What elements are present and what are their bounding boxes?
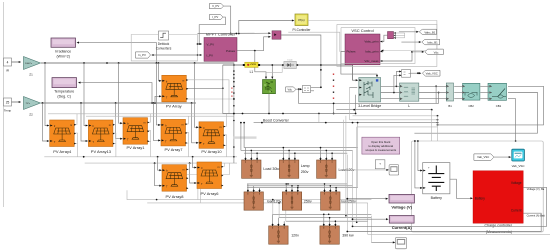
svg-text:Temp: Temp	[4, 109, 12, 113]
wire battery plus	[417, 140, 423, 171]
svg-text:Pulses: Pulses	[347, 50, 357, 54]
wire deblock loop	[131, 35, 198, 61]
svg-text:(Deg. C): (Deg. C)	[57, 95, 71, 99]
wire load row A drops	[246, 147, 333, 157]
wire PI input	[239, 19, 295, 33]
svg-text:Battery: Battery	[475, 197, 486, 201]
svg-text:Vdc: Vdc	[287, 87, 292, 91]
wire to PV Array1 inputs	[116, 63, 123, 140]
svg-text:I_PV: I_PV	[212, 15, 218, 19]
PV array PV Array8	[162, 165, 188, 199]
svg-text:CB1: CB1	[496, 104, 502, 108]
wire to PV Array4 inputs	[43, 63, 50, 142]
goto tag Vab_VSC	[422, 70, 440, 76]
svg-text:25: 25	[6, 101, 10, 105]
wire	[12, 61, 22, 63]
svg-text:L: L	[408, 104, 410, 108]
svg-text:Current (A) Batt: Current (A) Batt	[527, 213, 545, 217]
svg-text:PI-Controller: PI-Controller	[293, 28, 312, 32]
wire to PV Array6 inputs	[190, 157, 197, 184]
wire	[344, 120, 389, 171]
breaker CB2	[463, 83, 480, 108]
measurement mux	[388, 32, 397, 39]
boost converter IGBT	[263, 80, 276, 94]
svg-text:Vdc_meas: Vdc_meas	[364, 59, 379, 63]
svg-text:Irradiance: Irradiance	[55, 50, 71, 54]
wire	[494, 156, 511, 158]
wire load bus row A	[240, 114, 359, 154]
three-level bridge	[358, 78, 381, 109]
gain Z2	[24, 97, 41, 117]
svg-text:V_PV: V_PV	[212, 4, 219, 8]
wire VSC wrap boxes	[337, 24, 437, 66]
wire phase wrap A	[437, 86, 544, 126]
wire phase wrap C	[508, 99, 516, 142]
scope small	[389, 165, 399, 175]
svg-text:V_PV: V_PV	[207, 42, 215, 46]
wire irradiance bus	[41, 62, 234, 64]
wire to PV Array7 inputs	[153, 63, 160, 141]
wire	[411, 72, 422, 74]
wire load row C drops	[273, 214, 337, 223]
svg-text:PI(s): PI(s)	[298, 18, 304, 22]
svg-text:Z1: Z1	[29, 73, 33, 77]
svg-text:Temperature: Temperature	[54, 90, 74, 94]
wire to PV Array10 inputs	[192, 63, 199, 144]
PV array PV Array10	[199, 122, 225, 154]
display Current(A)	[389, 216, 414, 231]
diode block	[284, 60, 296, 69]
wire row1 collector	[186, 87, 235, 100]
svg-text:250v: 250v	[304, 200, 312, 204]
goto tag Vdc	[425, 49, 444, 55]
wire mux feeds	[395, 33, 405, 38]
breaker CB1	[488, 83, 507, 108]
wire PI output	[308, 21, 437, 52]
wire gate drops	[255, 51, 282, 80]
svg-text:Iabc_prim: Iabc_prim	[365, 50, 379, 54]
PV array PV Array6	[197, 162, 223, 196]
load Lamp 250v	[279, 157, 309, 178]
svg-text:Load 30kw: Load 30kw	[263, 167, 281, 171]
display Temperature (Deg. C)	[52, 78, 77, 99]
wire to PV Array13 inputs	[81, 63, 88, 142]
svg-text:Vab_VSC: Vab_VSC	[426, 71, 438, 75]
svg-text:PV Array4: PV Array4	[53, 149, 72, 154]
inductor L1	[245, 62, 258, 74]
wire lower distribution buses	[44, 156, 237, 164]
wire	[12, 101, 22, 103]
wire	[371, 241, 395, 243]
wire PV collector columns	[223, 63, 235, 164]
svg-text:Vab_VSC: Vab_VSC	[477, 155, 489, 159]
annotation thick gray stub	[233, 136, 257, 138]
wire	[224, 6, 232, 34]
wire m-port buses	[48, 80, 234, 169]
PV array PV Array13	[88, 120, 114, 154]
wire Vdc_meas	[382, 51, 413, 61]
wire three phase runs	[381, 85, 492, 98]
wire to PV Array row1 inputs	[155, 63, 162, 103]
wire lower horizontal wraps	[127, 190, 371, 203]
svg-text:load250v: load250v	[341, 200, 356, 204]
PV array PV Array4	[50, 120, 76, 154]
measurement block B1	[446, 83, 453, 108]
wire long vertical wraps left of measurement zone	[345, 116, 550, 243]
svg-text:PV Array7: PV Array7	[164, 147, 183, 152]
svg-text:250v: 250v	[301, 170, 309, 174]
load Load 30kw	[242, 157, 282, 178]
wire mid horizontal runs	[254, 88, 439, 142]
goto tag In_PV	[136, 52, 154, 58]
wire MPPT pulses	[237, 36, 271, 52]
goto tag Iabc_B1	[422, 39, 440, 45]
wire	[346, 198, 388, 200]
svg-text:Deblock: Deblock	[158, 42, 170, 46]
label Boost Converter	[263, 119, 290, 123]
LC filter block L	[400, 83, 419, 108]
wire VSC pulses to bridge gate	[341, 52, 378, 78]
svg-text:CB2: CB2	[468, 104, 474, 108]
wire tag feeds	[399, 31, 424, 53]
svg-text:B1: B1	[448, 104, 452, 108]
wire DC bus	[223, 64, 358, 81]
wire phase wrap B	[414, 93, 537, 134]
svg-text:MPPT Controller: MPPT Controller	[206, 32, 236, 37]
PV array PV Array1	[123, 118, 149, 150]
wire	[198, 43, 203, 45]
from tag Vab_VSC	[474, 154, 494, 160]
load load120v	[244, 189, 282, 210]
charge controller subsystem (red)	[473, 171, 523, 235]
svg-text:(W/m^2): (W/m^2)	[56, 55, 69, 59]
wire	[198, 54, 203, 56]
svg-text:Z2: Z2	[29, 113, 33, 117]
svg-text:Iabc_B1: Iabc_B1	[427, 41, 438, 45]
step source Deblock Converters	[156, 31, 172, 50]
svg-text:3-Level Bridge: 3-Level Bridge	[358, 104, 381, 108]
svg-text:IR: IR	[6, 69, 10, 73]
wire	[3, 2, 5, 207]
display Irradiance (W/m^2)	[51, 38, 76, 59]
svg-text:PV Array13: PV Array13	[91, 149, 112, 154]
svg-text:Voltage: Voltage	[511, 181, 522, 185]
svg-text:1000*u: 1000*u	[25, 63, 33, 65]
svg-text:In_PV: In_PV	[138, 53, 146, 57]
wire load bus row C	[272, 199, 371, 221]
svg-text:Vabc_B1: Vabc_B1	[424, 30, 436, 34]
svg-text:Battery: Battery	[431, 196, 443, 200]
wire MPPT label line	[198, 32, 271, 34]
svg-text:Voltage (V), Ba: Voltage (V), Ba	[527, 187, 545, 191]
svg-text:120v: 120v	[291, 233, 299, 237]
wire	[198, 17, 225, 45]
wire Vdc measurement run	[298, 85, 440, 114]
wire PV string links	[74, 131, 229, 203]
converter pulse block	[272, 31, 281, 39]
PV array PV Array	[162, 75, 188, 108]
svg-text:Voltage (V): Voltage (V)	[391, 205, 412, 210]
battery block	[423, 163, 450, 200]
Vab computation block	[402, 70, 411, 78]
svg-text:Boost Converter: Boost Converter	[263, 119, 290, 123]
svg-text:PV Array6: PV Array6	[200, 191, 219, 196]
svg-text:scopes & measurements: scopes & measurements	[365, 148, 396, 152]
load 390 kw	[320, 223, 354, 244]
wire	[78, 82, 153, 104]
svg-text:PV Array: PV Array	[166, 104, 182, 109]
display Voltage (V)	[389, 194, 414, 209]
wire	[296, 88, 302, 90]
gain Z1	[24, 57, 41, 77]
annotation Open this block	[362, 137, 400, 154]
load 120v	[269, 223, 299, 244]
scope Vab_VSC	[512, 149, 526, 168]
goto tag V_PV	[209, 4, 223, 9]
svg-text:Current: Current	[511, 208, 522, 212]
wire Vab measurement taps	[394, 70, 402, 92]
svg-text:Current(A): Current(A)	[392, 225, 413, 230]
wire load bus row B	[247, 148, 358, 188]
svg-text:Vabc_prim: Vabc_prim	[364, 40, 379, 44]
load Load120v	[317, 157, 355, 178]
svg-text:Pulses: Pulses	[226, 49, 236, 53]
wire	[77, 42, 157, 63]
goto tag Vabc_B1	[419, 29, 436, 34]
bridge port marks	[333, 74, 334, 99]
comparator block	[302, 86, 310, 93]
goto tag I_PV	[209, 15, 223, 20]
svg-text:I_PV: I_PV	[206, 53, 213, 57]
wire temperature bus	[41, 102, 196, 104]
wire battery m to controller	[450, 179, 473, 199]
svg-text:390 kw: 390 kw	[342, 233, 354, 237]
wire IGBT to return bus	[223, 94, 356, 115]
svg-text:4: 4	[7, 61, 9, 65]
svg-text:PV Array8: PV Array8	[165, 194, 184, 199]
load load250v	[321, 189, 356, 210]
big wrap box battery section	[412, 141, 544, 232]
PV array PV Array7	[161, 119, 187, 151]
constant Temp value 25	[4, 98, 12, 113]
from tag Vdc	[286, 87, 296, 92]
wire mux out to VSC	[382, 35, 388, 41]
wire controller voltage out	[352, 187, 547, 227]
svg-text:Converters: Converters	[156, 46, 172, 50]
svg-text:Diode: Diode	[287, 60, 293, 62]
wire	[153, 54, 197, 56]
svg-text:Vdc: Vdc	[434, 50, 439, 54]
svg-text:Charge controller: Charge controller	[485, 224, 513, 228]
constant IR value 4	[4, 58, 12, 73]
wire to PV Array8 inputs	[155, 157, 162, 187]
wire	[352, 218, 389, 220]
svg-text:VSC Control: VSC Control	[351, 28, 373, 33]
subsystem MPPT Controller	[204, 32, 237, 62]
subsystem VSC Control	[345, 28, 383, 65]
svg-text:PV Array1: PV Array1	[126, 145, 145, 150]
svg-text:Vab_VSC: Vab_VSC	[512, 164, 526, 168]
wire converter gate	[281, 32, 340, 88]
wire load row B drops	[248, 183, 337, 191]
svg-text:Lamp: Lamp	[301, 164, 310, 168]
wire controller current out	[346, 213, 545, 232]
svg-text:PV Array10: PV Array10	[201, 149, 222, 154]
scope bottom	[396, 237, 407, 248]
svg-text:(Measurements): (Measurements)	[486, 230, 512, 234]
svg-text:75*u: 75*u	[26, 103, 31, 105]
PI controller block	[293, 14, 312, 32]
load 250v	[282, 189, 312, 210]
model info block	[375, 160, 385, 169]
svg-text:L1: L1	[250, 70, 254, 74]
wire battery minus	[414, 140, 423, 189]
